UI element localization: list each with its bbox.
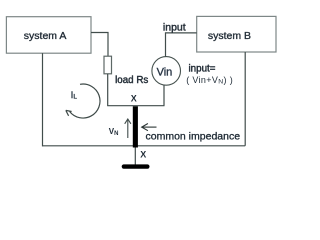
svg-text:( Vin+VN) ): ( Vin+VN) ) xyxy=(186,75,233,86)
system B xyxy=(197,16,276,52)
svg-text:system A: system A xyxy=(24,30,67,42)
arrow common impedance xyxy=(142,124,157,131)
svg-text:Vin: Vin xyxy=(157,66,173,78)
wire system B bottom down xyxy=(244,52,246,146)
wire Vin bottom to junction xyxy=(163,85,165,106)
wire system A bottom down xyxy=(42,53,44,146)
system A xyxy=(6,17,91,54)
svg-text:X: X xyxy=(131,93,137,103)
svg-text:L: L xyxy=(73,94,77,101)
common impedance bar xyxy=(133,106,138,147)
svg-text:X: X xyxy=(140,150,146,160)
svg-text:input=: input= xyxy=(189,64,216,75)
svg-text:VN: VN xyxy=(109,127,119,137)
wire top junction horizontal xyxy=(107,105,164,107)
arrow VN xyxy=(125,119,131,138)
ground xyxy=(122,164,150,168)
resistor load Rs xyxy=(104,56,148,86)
wire bar to ground xyxy=(134,148,136,165)
svg-text:common impedance: common impedance xyxy=(146,131,241,143)
svg-text:load Rs: load Rs xyxy=(115,75,148,86)
svg-text:input: input xyxy=(163,22,186,34)
svg-text:system B: system B xyxy=(208,30,251,42)
current loop IL xyxy=(66,84,100,118)
wire system A right to resistor top xyxy=(91,33,108,57)
wire Vin top to system B xyxy=(166,33,197,57)
wire resistor bottom to node X xyxy=(107,74,109,106)
source Vin xyxy=(152,57,181,86)
wire bottom horizontal return xyxy=(43,145,246,147)
